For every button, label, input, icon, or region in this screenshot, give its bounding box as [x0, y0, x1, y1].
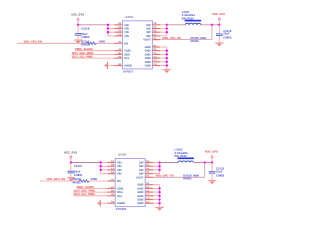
wire SW pin row1 to bus: [160, 28, 167, 30]
svg-text:VIN: VIN: [117, 165, 122, 168]
wire GND pin row11 to bus: [160, 65, 167, 67]
wire VIN bus vertical: [100, 163, 102, 174]
junction VIN bus row1: [107, 27, 109, 29]
pin stub left row8 U2102: [107, 191, 115, 193]
svg-text:VDD_GPU: VDD_GPU: [205, 151, 218, 154]
svg-text:SW: SW: [139, 173, 144, 176]
wire VDD_CPU_EN to R2113: [17, 42, 87, 44]
power symbol VDD_GPU: [211, 155, 213, 158]
svg-text:SDA: SDA: [124, 53, 130, 56]
ground AGND arrow: [104, 62, 107, 69]
junction GND bus row7: [166, 50, 168, 52]
junction SW bus row2: [158, 169, 160, 171]
svg-text:GND: GND: [145, 65, 151, 68]
wire SW bus vertical: [159, 163, 161, 174]
pin stub right row9 U2102: [145, 195, 153, 197]
wire feedback vertical: [211, 25, 213, 40]
wire SW bus to L2101: [167, 24, 186, 26]
svg-text:AGND: AGND: [117, 202, 125, 205]
wire VCC_SYS to VIN bus: [78, 24, 108, 26]
junction VCC_SYS node: [77, 24, 79, 26]
wire SW pin row1 to bus: [153, 165, 160, 167]
junction VDD_GPU node: [211, 161, 213, 163]
wire SW pin row0 to bus: [153, 162, 160, 164]
svg-text:R0402: R0402: [191, 39, 200, 43]
pin stub left row1 U2101: [115, 28, 123, 30]
svg-text:SW: SW: [146, 24, 151, 27]
pin stub right row10 U2101: [152, 61, 160, 63]
resistor R2113 100R: [87, 42, 97, 45]
ground under C2119: [215, 43, 223, 47]
svg-text:VCC_SYS: VCC_SYS: [64, 150, 77, 154]
svg-text:SCL: SCL: [117, 195, 123, 198]
svg-text:SYR837: SYR837: [123, 70, 134, 74]
junction SW bus row1: [166, 27, 168, 29]
wire GND pin row8 to bus: [160, 53, 167, 55]
junction GND bus row9: [158, 195, 160, 197]
wire SW bus to L2102: [160, 162, 179, 164]
pin stub right row11 U2102: [145, 202, 153, 204]
pin stub right row11 U2101: [152, 65, 160, 67]
pin stub right row3 U2101: [152, 35, 160, 37]
wire VIN bus to pin row3: [108, 35, 115, 37]
svg-text:SW: SW: [146, 31, 151, 34]
power symbol VCC_SYS (U2101 side): [77, 17, 79, 20]
power symbol VCC_SYS (U2102 side): [70, 155, 72, 158]
wire GND pin row9 to bus: [160, 57, 167, 59]
svg-text:C2118: C2118: [81, 27, 90, 31]
junction feedback tap: [211, 24, 213, 26]
svg-text:100R: 100R: [98, 39, 105, 43]
svg-text:GND: GND: [145, 50, 151, 53]
wire GND pin row7 to bus: [153, 187, 160, 189]
wire VOUT to VDD_GPU_FB: [153, 176, 205, 178]
pin stub right row8 U2102: [145, 191, 153, 193]
wire VIN bus to pin row0: [108, 24, 115, 26]
wire I2C0_SDA_PMIC to SDA: [73, 191, 107, 193]
svg-text:VIN: VIN: [124, 24, 129, 27]
pin stub left row11 U2101: [115, 65, 123, 67]
svg-text:VIN: VIN: [117, 162, 122, 165]
wire VIN bus to pin row3: [101, 173, 108, 175]
svg-text:I2C0_SCL_PMIC: I2C0_SCL_PMIC: [74, 193, 95, 196]
capacitor C2119: [216, 34, 223, 36]
wire VIN bus to pin row2: [101, 169, 108, 171]
pin stub right row0 U2101: [152, 24, 160, 26]
pin stub right row4 U2101: [152, 39, 160, 41]
wire feedback vertical: [204, 163, 206, 178]
wire GND pin row11 to bus: [153, 202, 160, 204]
svg-text:PMIC_SLEEP: PMIC_SLEEP: [77, 186, 95, 189]
svg-text:I2C0_SDA_PMIC: I2C0_SDA_PMIC: [74, 190, 96, 193]
svg-text:VSEL: VSEL: [117, 187, 124, 190]
wire GND pin row7 to bus: [160, 50, 167, 52]
svg-text:GND: GND: [137, 184, 143, 187]
junction GND bus row10: [166, 61, 168, 63]
svg-text:R0402: R0402: [183, 177, 192, 181]
svg-text:I2C0_SDA_PMIC: I2C0_SDA_PMIC: [72, 52, 94, 55]
svg-text:GND: GND: [145, 61, 151, 64]
ground under U2102: [155, 207, 163, 211]
pin stub left row9 U2101: [115, 57, 123, 59]
pin stub right row2 U2101: [152, 31, 160, 33]
wire AGND pin to arrow: [101, 202, 107, 204]
svg-text:GND: GND: [137, 191, 143, 194]
svg-text:VIN: VIN: [124, 35, 129, 38]
pin stub left row0 U2101: [115, 24, 123, 26]
svg-text:VDD_CPU_FB: VDD_CPU_FB: [162, 37, 180, 40]
capacitor C2118: [75, 34, 82, 36]
pin stub left row3 U2101: [115, 35, 123, 37]
svg-text:R0402: R0402: [73, 180, 82, 184]
svg-text:SW: SW: [146, 28, 151, 31]
svg-text:EN: EN: [124, 42, 128, 45]
label L2102 footprint highlight bar: [178, 158, 194, 160]
svg-text:SYR838: SYR838: [116, 207, 127, 211]
svg-text:GND: GND: [137, 202, 143, 205]
pin stub right row1 U2102: [145, 165, 153, 167]
pin stub left row9 U2102: [107, 195, 115, 197]
wire C2119 to ground: [218, 36, 220, 43]
pin stub right row6 U2102: [145, 184, 153, 186]
junction GND bus row7: [158, 187, 160, 189]
wire VDD_GPU stem: [211, 158, 213, 163]
pin stub left row11 U2102: [107, 202, 115, 204]
svg-text:VIN: VIN: [124, 28, 129, 31]
svg-text:VIN: VIN: [117, 169, 122, 172]
svg-text:SW: SW: [139, 165, 144, 168]
pin stub left row5 U2102: [107, 180, 115, 182]
ground AGND arrow: [97, 200, 100, 207]
svg-text:VOUT: VOUT: [143, 39, 151, 42]
wire R2119 to EN pin: [89, 180, 107, 182]
junction GND bus row11: [158, 202, 160, 204]
wire GND pin row10 to bus: [153, 199, 160, 201]
svg-text:VDD_GPU_EN: VDD_GPU_EN: [47, 178, 66, 181]
junction GND bus row10: [158, 198, 160, 200]
junction SW bus row0: [166, 24, 168, 26]
wire I2C0_SCL_PMIC to SCL: [71, 57, 114, 59]
junction SW bus row2: [166, 31, 168, 33]
svg-text:SCL: SCL: [124, 57, 130, 60]
pin stub right row0 U2102: [145, 162, 153, 164]
wire VIN bus vertical: [107, 25, 109, 36]
junction GND bus row8: [166, 53, 168, 55]
wire GND pin row10 to bus: [160, 61, 167, 63]
svg-text:PMIC_SLEEP: PMIC_SLEEP: [75, 48, 93, 51]
ground under C2122: [208, 180, 216, 184]
wire L2101 to VDD_CPU node: [201, 24, 220, 26]
wire C2118 to ground: [77, 35, 79, 39]
wire VDD_GPU_EN to R2119: [40, 180, 79, 182]
pin stub left row1 U2102: [107, 165, 115, 167]
junction VIN bus row0: [107, 24, 109, 26]
wire C2122 to ground: [211, 173, 213, 180]
pin stub left row5 U2101: [115, 42, 123, 44]
svg-text:SDA: SDA: [117, 191, 123, 194]
capacitor C2121: [68, 171, 75, 173]
svg-text:AGND: AGND: [124, 65, 132, 68]
svg-text:GND: GND: [137, 199, 143, 202]
junction VIN bus row1: [100, 165, 102, 167]
junction SW bus row1: [158, 165, 160, 167]
svg-text:VIN: VIN: [124, 31, 129, 34]
svg-text:GND: GND: [145, 53, 151, 56]
wire SW pin row3 to bus: [153, 173, 160, 175]
wire VCC_SYS stem: [70, 158, 72, 162]
junction VIN bus row2: [100, 169, 102, 171]
junction VCC_SYS node: [70, 161, 72, 163]
ground under C2118: [74, 40, 82, 44]
wire I2C0_SDA_PMIC to SDA: [71, 53, 114, 55]
junction VDD_CPU node: [218, 24, 220, 26]
op-amp U2101 regulator body: [122, 21, 152, 69]
pin stub right row10 U2102: [145, 199, 153, 201]
wire to C2121: [70, 163, 72, 172]
svg-text:GND: GND: [145, 57, 151, 60]
pin stub right row4 U2102: [145, 176, 153, 178]
wire VIN bus to pin row2: [108, 31, 115, 33]
svg-text:VDD_GPU_FB: VDD_GPU_FB: [155, 175, 174, 178]
svg-text:C0805: C0805: [223, 36, 232, 40]
op-amp U2102 regulator body: [115, 159, 145, 207]
pin stub left row7 U2101: [115, 50, 123, 52]
wire L2102 to VDD_GPU node: [194, 162, 213, 164]
wire VIN bus to pin row1: [108, 28, 115, 30]
pin stub right row1 U2101: [152, 28, 160, 30]
junction GND bus row8: [158, 191, 160, 193]
inductor L2101 0.33uH: [185, 23, 200, 25]
wire to C2122: [211, 163, 213, 172]
svg-text:C0805: C0805: [216, 173, 225, 177]
resistor R2119 100R: [79, 180, 89, 182]
pin stub right row8 U2101: [152, 53, 160, 55]
wire GND bus vertical: [166, 47, 168, 69]
svg-text:VIN: VIN: [117, 173, 122, 176]
wire SW bus vertical: [166, 25, 168, 36]
wire SW pin row0 to bus: [160, 24, 167, 26]
junction GND bus row9: [166, 57, 168, 59]
pin stub right row6 U2101: [152, 46, 160, 48]
power symbol VDD_CPU: [218, 17, 220, 20]
label L2101 footprint highlight bar: [185, 20, 201, 22]
svg-text:I2C0_SCL_PMIC: I2C0_SCL_PMIC: [72, 56, 93, 59]
ground under U2101: [163, 69, 171, 73]
svg-text:R0402: R0402: [81, 42, 90, 46]
wire GND bus vertical: [159, 185, 161, 207]
wire to C2119: [218, 25, 220, 34]
wire GND pin row6 to bus: [153, 184, 160, 186]
pin stub right row3 U2102: [145, 173, 153, 175]
svg-text:GND: GND: [137, 187, 143, 190]
wire I2C0_SCL_PMIC to SCL: [73, 195, 107, 197]
wire VCC_SYS stem: [77, 20, 79, 24]
svg-text:U2101: U2101: [125, 15, 134, 19]
wire AGND pin to arrow: [108, 65, 114, 67]
wire PMIC_SLEEP to VSEL: [77, 187, 108, 189]
wire VCC_SYS to VIN bus: [71, 162, 101, 164]
svg-text:VOUT: VOUT: [136, 176, 144, 179]
svg-text:VDD_CPU: VDD_CPU: [212, 13, 225, 16]
wire GND pin row9 to bus: [153, 195, 160, 197]
pin stub left row3 U2102: [107, 173, 115, 175]
wire SW pin row2 to bus: [160, 31, 167, 33]
wire VIN bus to pin row1: [101, 165, 108, 167]
capacitor C2122: [209, 172, 216, 174]
wire GND pin row8 to bus: [153, 191, 160, 193]
svg-text:EN: EN: [117, 180, 121, 183]
pin stub left row8 U2101: [115, 53, 123, 55]
pin stub left row2 U2102: [107, 169, 115, 171]
ground under C2121: [67, 177, 75, 181]
pin stub right row9 U2101: [152, 57, 160, 59]
junction VIN bus row0: [100, 161, 102, 163]
pin stub left row2 U2101: [115, 31, 123, 33]
svg-text:SW: SW: [139, 162, 144, 165]
svg-text:VDD_CPU_EN: VDD_CPU_EN: [24, 40, 43, 43]
wire R2113 to EN pin: [97, 42, 115, 44]
junction GND bus row11: [166, 64, 168, 66]
svg-text:100R: 100R: [91, 177, 98, 181]
pin stub right row7 U2101: [152, 50, 160, 52]
svg-text:GND: GND: [145, 46, 151, 49]
wire to C2118: [77, 25, 79, 34]
pin stub right row2 U2102: [145, 169, 153, 171]
svg-text:VCC_SYS: VCC_SYS: [71, 13, 84, 17]
wire PMIC_SLEEP to VSEL: [75, 50, 115, 52]
inductor L2102 0.33uH: [178, 161, 193, 163]
junction VIN bus row2: [107, 31, 109, 33]
svg-text:U2102: U2102: [118, 153, 127, 157]
svg-text:C2121: C2121: [74, 164, 83, 168]
pin stub left row0 U2102: [107, 162, 115, 164]
wire VOUT to VDD_CPU_FB: [160, 39, 212, 41]
junction SW bus row0: [158, 161, 160, 163]
junction feedback tap: [204, 161, 206, 163]
svg-text:GND: GND: [137, 195, 143, 198]
svg-text:SW: SW: [146, 35, 151, 38]
wire VIN bus to pin row0: [101, 162, 108, 164]
svg-text:SW: SW: [139, 169, 144, 172]
svg-text:VSEL: VSEL: [124, 50, 131, 53]
pin stub left row7 U2102: [107, 187, 115, 189]
pin stub right row7 U2102: [145, 187, 153, 189]
wire SW pin row2 to bus: [153, 169, 160, 171]
wire C2121 to ground: [70, 173, 72, 177]
wire SW pin row3 to bus: [160, 35, 167, 37]
wire GND pin row6 to bus: [160, 46, 167, 48]
wire VDD_CPU stem: [218, 20, 220, 25]
